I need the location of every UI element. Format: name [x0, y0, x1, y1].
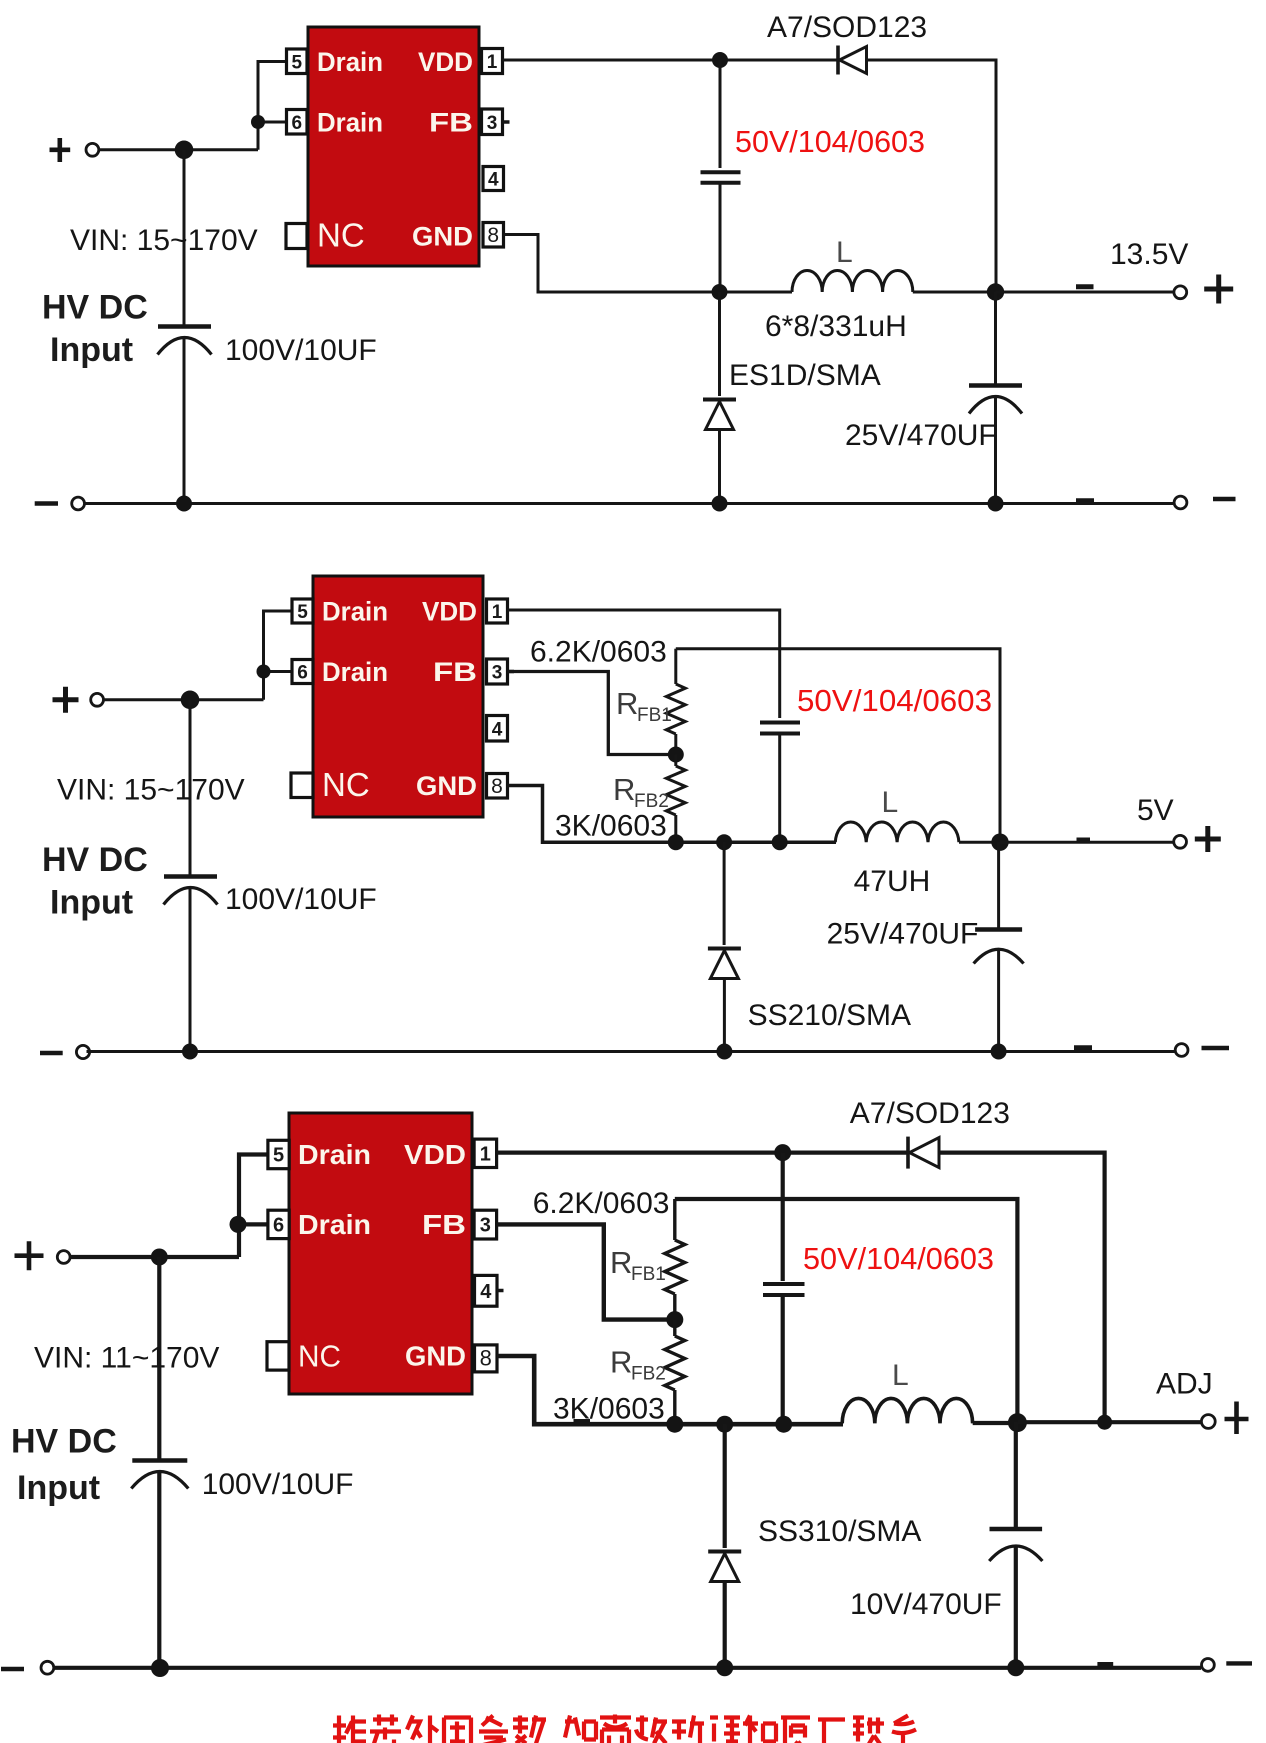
svg-text:25V/470UF: 25V/470UF: [845, 419, 997, 452]
svg-text:3: 3: [487, 113, 498, 134]
wire input+ rail (circuit 3): [70, 1255, 239, 1259]
svg-text:Input: Input: [50, 331, 133, 369]
wire dash artifact output 2: [1077, 838, 1091, 843]
wire output to terminal: [996, 291, 1175, 294]
svg-text:3: 3: [492, 663, 503, 684]
svg-text:HV DC: HV DC: [42, 289, 148, 327]
svg-text:R: R: [613, 772, 635, 807]
resistor RFB1 6.2K/0603 (circuit 2): [674, 649, 677, 684]
svg-text:47UH: 47UH: [854, 865, 931, 898]
node output (circuit 2): [991, 834, 1008, 851]
terminal VOUT+ ADJ: [1201, 1415, 1215, 1429]
wire input+ rail: [99, 148, 258, 151]
wire GND pin8 to switch rail (circuit 3): [497, 1356, 843, 1424]
node switch / RFB2 (circuit 3): [666, 1416, 683, 1433]
svg-text:50V/104/0603: 50V/104/0603: [735, 125, 925, 159]
node ground / D2 (circuit 2): [716, 1044, 732, 1060]
svg-text:VIN: 15~170V: VIN: 15~170V: [70, 224, 258, 257]
node input rail / C-in (circuit 3): [151, 1249, 168, 1266]
svg-text:Drain: Drain: [322, 597, 388, 627]
wire dash artifact output: [1076, 284, 1094, 289]
svg-text:4: 4: [488, 170, 499, 191]
inductor L 6*8/331uH (circuit 1): [792, 271, 913, 293]
node switch / D2 (circuit 2): [716, 834, 732, 850]
svg-text:GND: GND: [416, 771, 477, 801]
svg-text:Drain: Drain: [317, 108, 383, 138]
svg-text:100V/10UF: 100V/10UF: [202, 1468, 354, 1501]
svg-text:Input: Input: [17, 1469, 100, 1507]
inductor L (circuit 3): [842, 1398, 972, 1423]
svg-text:Drain: Drain: [298, 1209, 371, 1240]
wire switch node to D2 (circuit 2): [723, 842, 726, 945]
node switch / RFB2: [668, 834, 684, 850]
svg-text:Drain: Drain: [317, 47, 383, 77]
svg-text:NC: NC: [322, 766, 370, 803]
node switch / C-boot (circuit 3): [775, 1416, 792, 1433]
pin 5 (circuit 2): [292, 599, 313, 623]
svg-text:VDD: VDD: [404, 1139, 466, 1170]
svg-text:1: 1: [480, 1143, 491, 1165]
wire VDD pin1 to C-boot (circuit 2): [508, 610, 780, 718]
inductor L 47UH (circuit 2): [835, 822, 959, 842]
svg-text:FB2: FB2: [631, 1364, 666, 1385]
wire inductor to output node (circuit 3): [973, 1421, 1018, 1425]
svg-text:1: 1: [492, 602, 503, 623]
node drain riser junction (circuit 2): [257, 665, 271, 679]
svg-text:50V/104/0603: 50V/104/0603: [803, 1242, 994, 1276]
op IC U1 (circuit 2): [313, 576, 483, 817]
wire VDD pin1 to diode: [503, 59, 839, 62]
wire GND pin8 to switch rail (circuit 2): [508, 786, 837, 843]
wire inductor to output node (circuit 2): [959, 841, 1000, 844]
svg-text:5: 5: [291, 52, 302, 73]
svg-text:5: 5: [297, 602, 308, 623]
wire pin3 stub: [503, 120, 510, 124]
pin NC stub (circuit 2): [291, 773, 313, 798]
wire ground rail (circuit 1): [85, 502, 1174, 505]
svg-text:VDD: VDD: [422, 597, 477, 627]
svg-text:FB1: FB1: [637, 705, 672, 726]
pin 1 (circuit 2): [487, 599, 508, 623]
terminal VIN+ (circuit 3): [15, 1241, 44, 1270]
diode D2 SS210/SMA (circuit 2): [708, 947, 741, 951]
terminal VIN- (circuit 3): [1, 1667, 24, 1671]
wire dash artifact ground rail 2: [1074, 1045, 1092, 1050]
wire FB pin3 to divider: [508, 672, 669, 755]
svg-text:4: 4: [480, 1281, 492, 1303]
pin 1: [482, 49, 503, 74]
node input rail / C-in junction: [175, 141, 194, 160]
svg-text:6.2K/0603: 6.2K/0603: [530, 636, 667, 669]
capacitor C-boot 50V/104/0603 (circuit 3): [763, 1282, 805, 1286]
node VDD / C-boot (circuit 3): [774, 1144, 791, 1161]
svg-text:3: 3: [480, 1215, 491, 1237]
wire diode to output riser (circuit 3): [939, 1153, 1105, 1423]
pin 6 (circuit 3): [268, 1210, 289, 1238]
svg-text:50V/104/0603: 50V/104/0603: [797, 684, 992, 718]
wire output to terminal (circuit 3): [1017, 1420, 1202, 1424]
capacitor C-in lead: [183, 150, 186, 325]
resistor RFB2 3K/0603 (circuit 2): [674, 755, 677, 767]
svg-text:8: 8: [487, 224, 499, 247]
pin 8 (circuit 3): [475, 1345, 498, 1372]
svg-text:100V/10UF: 100V/10UF: [225, 334, 377, 367]
svg-text:6: 6: [273, 1214, 284, 1236]
node output (circuit 1): [987, 283, 1004, 300]
node FB junction: [668, 747, 684, 763]
svg-text:NC: NC: [317, 217, 365, 254]
wire dash artifact ground rail: [1076, 498, 1094, 503]
wire dash artifact ground rail 3: [1097, 1662, 1113, 1667]
wire riser to Drain pins (circuit 3): [239, 1155, 268, 1258]
svg-text:100V/10UF: 100V/10UF: [225, 883, 377, 916]
wire FB pin3 to divider (circuit 3): [497, 1224, 667, 1319]
svg-text:8: 8: [491, 775, 503, 798]
svg-text:HV DC: HV DC: [11, 1423, 117, 1461]
svg-text:6.2K/0603: 6.2K/0603: [533, 1187, 670, 1220]
pin 4: [483, 167, 504, 191]
svg-text:ES1D/SMA: ES1D/SMA: [729, 359, 881, 392]
svg-text:GND: GND: [405, 1341, 466, 1372]
capacitor C-boot 50V/104/0603 (circuit 2): [760, 721, 800, 725]
pin NC stub: [286, 224, 307, 249]
svg-text:3K/0603: 3K/0603: [555, 810, 667, 843]
svg-text:GND: GND: [412, 222, 473, 252]
node ground / C-in: [176, 496, 192, 512]
svg-text:SS210/SMA: SS210/SMA: [748, 999, 911, 1032]
op IC U1 (circuit 3): [289, 1113, 472, 1394]
wire ground rail (circuit 2): [87, 1050, 1176, 1053]
wire inductor to output node: [913, 291, 996, 294]
pin 1 (circuit 3): [474, 1139, 497, 1167]
diode D2 SS310/SMA (circuit 3): [708, 1550, 741, 1554]
pin 3 (circuit 3): [474, 1210, 497, 1239]
wire diode to output riser: [867, 60, 997, 292]
wire output node to C-out (circuit 2): [997, 842, 1000, 928]
terminal VIN+ (circuit 1): [50, 148, 71, 153]
wire pin4 stub (circuit 3): [497, 1289, 504, 1293]
wire switch node to D2: [718, 292, 721, 396]
wire output node to C-out: [994, 292, 997, 384]
svg-text:Input: Input: [50, 884, 133, 922]
wire output node to C-out (circuit 3): [1014, 1422, 1018, 1527]
svg-text:8: 8: [480, 1345, 492, 1370]
wire GND pin8 to switch node: [504, 235, 793, 293]
node drain riser junction (circuit 3): [230, 1216, 247, 1233]
svg-text:SS310/SMA: SS310/SMA: [758, 1515, 921, 1548]
capacitor C-boot lead (circuit 3): [781, 1153, 785, 1281]
note red Chinese text (clipped at bottom): [333, 1715, 916, 1743]
svg-text:NC: NC: [298, 1339, 341, 1374]
wire VDD pin1 to diode (circuit 3): [497, 1150, 908, 1154]
svg-text:A7/SOD123: A7/SOD123: [767, 11, 927, 44]
capacitor C-in lead (circuit 2): [189, 700, 192, 875]
wire output to terminal (circuit 2): [1000, 841, 1174, 844]
svg-text:R: R: [610, 1345, 632, 1380]
capacitor C-out 25V/470UF (circuit 1): [969, 383, 1022, 388]
wire RFB1 top to output riser (circuit 3): [675, 1199, 1018, 1422]
svg-text:1: 1: [487, 52, 498, 73]
svg-text:25V/470UF: 25V/470UF: [827, 918, 979, 951]
wire input+ rail (circuit 2): [104, 698, 264, 701]
node switch / C-boot (circuit 2): [772, 834, 788, 850]
capacitor C-in lead (circuit 3): [157, 1257, 161, 1459]
diode D1 A7/SOD123 (circuit 3): [906, 1137, 910, 1169]
resistor RFB2 3K/0603 (circuit 3): [673, 1320, 676, 1336]
capacitor C-in 100V/10UF (circuit 1): [158, 324, 211, 329]
node ground / C-in (circuit 2): [182, 1044, 198, 1060]
svg-text:FB: FB: [422, 1209, 466, 1240]
svg-text:6: 6: [297, 663, 308, 684]
node ground / C-out: [988, 496, 1004, 512]
pin 6: [287, 110, 308, 135]
svg-text:13.5V: 13.5V: [1110, 238, 1188, 271]
svg-text:3K/0603: 3K/0603: [553, 1393, 665, 1426]
pin 6 (circuit 2): [292, 660, 313, 684]
node switch / D2 (circuit 3): [716, 1416, 733, 1433]
node ground / C-in (circuit 3): [151, 1659, 169, 1677]
pin 4 (circuit 3): [475, 1275, 498, 1306]
svg-text:R: R: [616, 686, 638, 721]
wire pin3 stub (circuit 2): [508, 670, 515, 674]
diode D1 A7/SOD123 (circuit 1): [836, 46, 840, 75]
wire switch node to D2 (circuit 3): [723, 1424, 727, 1548]
svg-text:4: 4: [492, 719, 503, 740]
svg-text:VIN: 15~170V: VIN: 15~170V: [57, 774, 245, 807]
terminal VOUT- (circuit 1): [1174, 496, 1187, 509]
svg-text:Drain: Drain: [298, 1139, 371, 1170]
svg-text:VIN: 11~170V: VIN: 11~170V: [34, 1341, 219, 1374]
node ground / D2: [712, 496, 728, 512]
wire dash artifact switch rail (circuit 3): [574, 1419, 591, 1424]
svg-text:6*8/331uH: 6*8/331uH: [765, 310, 907, 343]
node ground / C-out (circuit 2): [991, 1044, 1007, 1060]
pin NC stub (circuit 3): [267, 1342, 289, 1370]
node ground / D2 (circuit 3): [716, 1659, 733, 1676]
svg-text:A7/SOD123: A7/SOD123: [850, 1097, 1010, 1130]
pin 5: [287, 49, 308, 74]
node switch/C-boot/D2: [712, 284, 728, 300]
terminal VIN+ (circuit 2): [53, 687, 79, 713]
svg-text:HV DC: HV DC: [42, 841, 148, 879]
wire riser to Drain pins: [258, 62, 287, 150]
wire to Drain pin 6 (circuit 3): [238, 1222, 268, 1226]
terminal VOUT- (circuit 2): [1175, 1044, 1188, 1057]
svg-text:Drain: Drain: [322, 657, 388, 687]
wire to Drain pin 6 (circuit 2): [264, 670, 293, 673]
capacitor C-boot lead: [719, 60, 722, 168]
node VDD / C-boot junction: [712, 52, 728, 68]
svg-text:FB: FB: [429, 108, 473, 138]
terminal VOUT+ 13.5V: [1174, 286, 1187, 299]
svg-text:VDD: VDD: [418, 47, 473, 77]
node output / diode riser (circuit 3): [1097, 1415, 1112, 1430]
capacitor C-in 100V/10UF (circuit 2): [164, 874, 217, 879]
node drain riser junction: [251, 115, 265, 129]
svg-text:FB: FB: [433, 657, 477, 687]
capacitor C-in 100V/10UF (circuit 3): [132, 1458, 187, 1463]
capacitor C-boot 50V/104/0603 (circuit 1): [701, 170, 741, 174]
node output (circuit 3): [1008, 1413, 1027, 1432]
terminal VIN- (circuit 2): [40, 1051, 63, 1055]
svg-text:R: R: [610, 1245, 632, 1280]
node FB junction (circuit 3): [666, 1311, 683, 1328]
terminal VOUT- (circuit 3): [1202, 1659, 1215, 1672]
node ground / C-out (circuit 3): [1007, 1659, 1024, 1676]
terminal VIN- (circuit 1): [35, 501, 58, 505]
diode D2 ES1D/SMA (circuit 1): [703, 398, 736, 402]
wire to Drain pin 6: [258, 121, 287, 124]
pin 8 (circuit 2): [487, 774, 508, 799]
wire ground rail (circuit 3): [54, 1666, 1201, 1670]
svg-text:5V: 5V: [1137, 794, 1174, 827]
svg-text:L: L: [882, 786, 899, 819]
capacitor C-out 10V/470UF (circuit 3): [990, 1527, 1043, 1532]
pin 3 (circuit 2): [487, 659, 508, 684]
svg-text:5: 5: [273, 1145, 284, 1167]
pin 4 (circuit 2): [487, 716, 508, 742]
pin 3: [482, 109, 503, 135]
svg-text:FB1: FB1: [631, 1264, 666, 1285]
svg-text:L: L: [836, 236, 853, 269]
svg-text:6: 6: [291, 113, 302, 134]
node input rail / C-in (circuit 2): [181, 691, 200, 710]
svg-text:L: L: [892, 1359, 909, 1392]
op IC U1 PN8034 (circuit 1): [308, 27, 479, 266]
capacitor C-out 25V/470UF (circuit 2): [975, 927, 1022, 932]
terminal VOUT+ 5V: [1174, 835, 1187, 848]
svg-text:ADJ: ADJ: [1156, 1368, 1213, 1401]
pin 8: [483, 223, 504, 248]
svg-text:10V/470UF: 10V/470UF: [850, 1588, 1002, 1621]
wire riser to Drain pins (circuit 2): [264, 611, 293, 700]
wire RFB1 top to output riser: [676, 649, 1000, 843]
pin 5 (circuit 3): [268, 1140, 289, 1168]
resistor RFB1 6.2K/0603 (circuit 3): [673, 1199, 676, 1240]
